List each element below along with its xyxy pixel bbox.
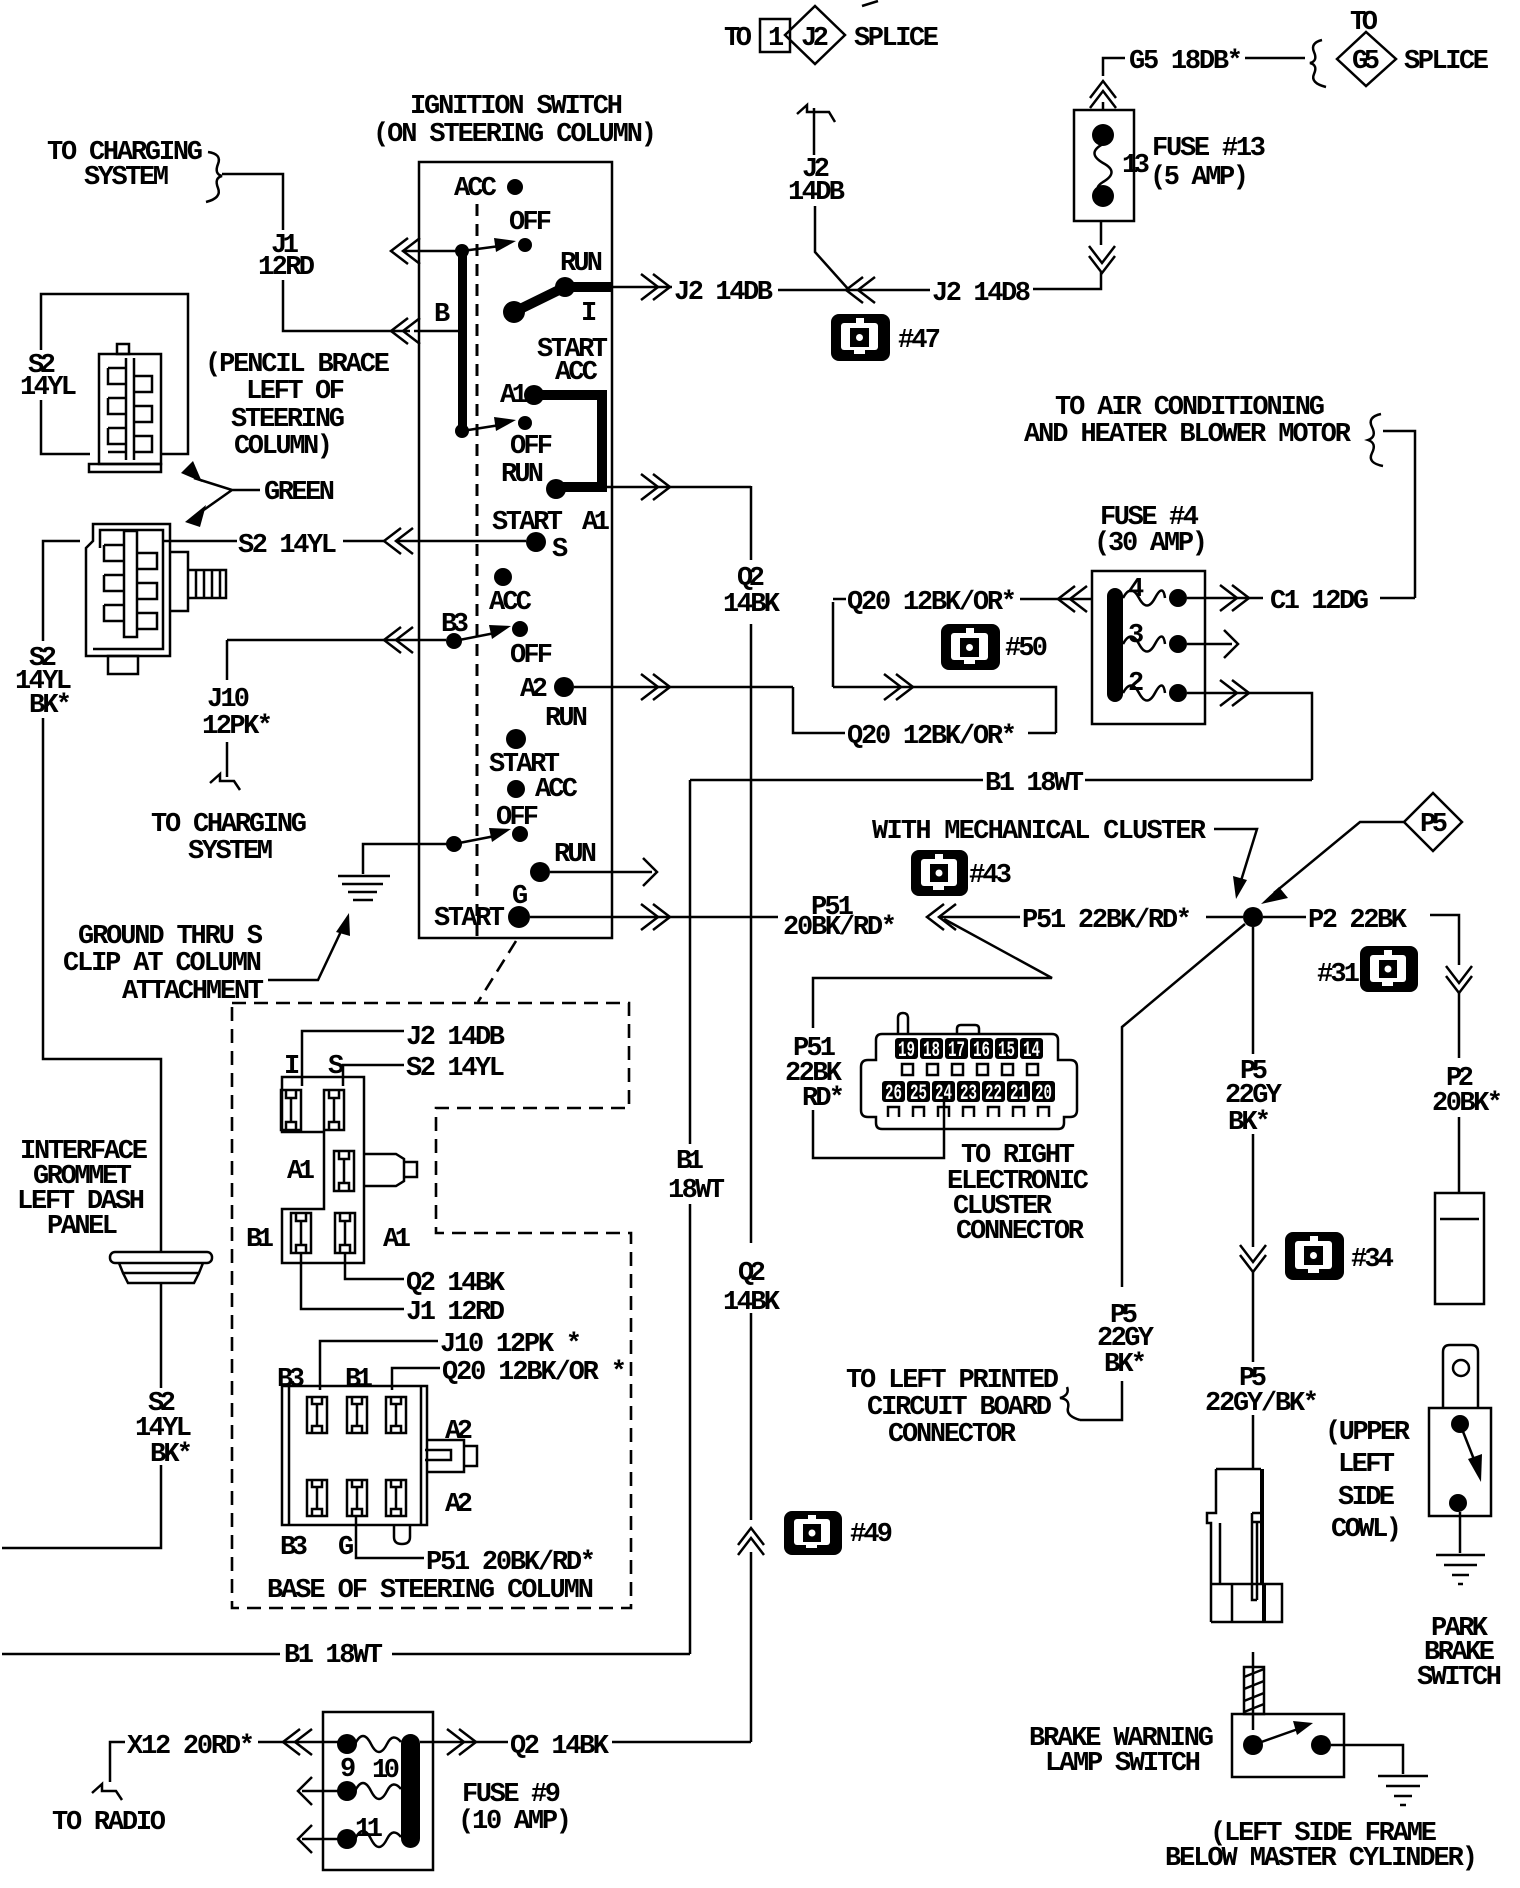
START dot + label (bank4) bbox=[506, 729, 526, 749]
svg-text:2: 2 bbox=[1128, 669, 1144, 699]
pin 11 bbox=[337, 1829, 357, 1849]
pin mid bbox=[337, 1781, 357, 1801]
svg-text:TO: TO bbox=[724, 24, 752, 54]
connector C1 body (in S2 box) bbox=[89, 344, 161, 472]
svg-text:GREEN: GREEN bbox=[264, 478, 335, 508]
svg-text:17: 17 bbox=[948, 1038, 965, 1063]
ground symbol bbox=[338, 876, 390, 900]
interface grommet bbox=[110, 1252, 212, 1283]
wire S2 14YL from connector to ignition S bbox=[164, 540, 384, 543]
svg-text:P51 22BK/RD*: P51 22BK/RD* bbox=[1022, 906, 1192, 936]
pointer to ground bbox=[268, 925, 344, 980]
wire P51 22BK/RD* bbox=[940, 916, 1020, 919]
ground (brake warning) bbox=[1378, 1776, 1428, 1805]
svg-text:TO RADIO: TO RADIO bbox=[52, 1808, 166, 1838]
contact bar B bbox=[458, 246, 467, 436]
svg-text:P5: P5 bbox=[1420, 810, 1448, 840]
wire Q2 vertical bbox=[750, 486, 753, 1742]
pin S bbox=[324, 1090, 344, 1130]
ignition switch box bbox=[419, 162, 612, 938]
connector chevrons (down) bbox=[1089, 246, 1115, 273]
wire RUN out to Q2 bbox=[605, 486, 751, 489]
svg-text:WITH MECHANICAL CLUSTER: WITH MECHANICAL CLUSTER bbox=[872, 817, 1207, 847]
wire to ground bbox=[1331, 1745, 1403, 1774]
bottom hole row bbox=[888, 1107, 1049, 1117]
bottom key tab bbox=[394, 1525, 410, 1544]
SEC7: base of steering column dashed box bbox=[232, 1003, 631, 1608]
svg-text:TO CHARGING: TO CHARGING bbox=[151, 810, 307, 840]
svg-text:B1 18WT: B1 18WT bbox=[985, 769, 1084, 799]
svg-text:RUN: RUN bbox=[554, 840, 597, 870]
dashed column line bbox=[476, 204, 479, 936]
svg-text:11: 11 bbox=[355, 1815, 383, 1845]
svg-text:SYSTEM: SYSTEM bbox=[188, 837, 273, 867]
svg-text:CLIP AT COLUMN: CLIP AT COLUMN bbox=[63, 949, 262, 979]
pin B1 bbox=[291, 1213, 311, 1253]
svg-text:PANEL: PANEL bbox=[47, 1212, 118, 1242]
fuse 4 box bbox=[1092, 571, 1205, 724]
svg-text:ACC: ACC bbox=[535, 775, 578, 805]
svg-text:#34: #34 bbox=[1351, 1245, 1394, 1275]
squiggle below splice bbox=[797, 105, 835, 122]
svg-text:26: 26 bbox=[885, 1081, 902, 1106]
pin 10 wire out bbox=[420, 1741, 508, 1744]
svg-text:STEERING: STEERING bbox=[231, 405, 345, 435]
connector icon #49 bbox=[784, 1511, 842, 1555]
svg-text:1: 1 bbox=[768, 24, 784, 54]
svg-text:#47: #47 bbox=[898, 326, 941, 356]
ground wire from pivot bbox=[363, 844, 447, 874]
OFF label + dot (bank2) bbox=[518, 416, 532, 430]
label J1 12RD bbox=[301, 1253, 404, 1309]
fuse 13 contacts bbox=[1092, 124, 1114, 146]
svg-text:B1 18WT: B1 18WT bbox=[284, 1641, 383, 1671]
wiper arrow bank2 bbox=[462, 425, 500, 431]
svg-text:LEFT: LEFT bbox=[1338, 1450, 1395, 1480]
svg-text:14: 14 bbox=[1023, 1038, 1040, 1063]
OFF dot + arrow (bank3) bbox=[512, 621, 528, 637]
chevrons down on P2 bbox=[1446, 966, 1472, 993]
svg-text:GROUND THRU S: GROUND THRU S bbox=[78, 922, 263, 952]
svg-text:B3: B3 bbox=[280, 1533, 308, 1563]
svg-text:B1: B1 bbox=[676, 1147, 704, 1177]
SEC2: ignition switch bbox=[63, 92, 793, 1007]
svg-text:Q20 12BK/OR*: Q20 12BK/OR* bbox=[847, 588, 1017, 618]
svg-text:RUN: RUN bbox=[501, 460, 544, 490]
svg-text:OFF: OFF bbox=[510, 432, 553, 462]
svg-text:24: 24 bbox=[935, 1081, 952, 1106]
svg-text:J2 14D8: J2 14D8 bbox=[932, 279, 1031, 309]
fuse 4 bus bar bbox=[1107, 588, 1123, 702]
wire below grommet bbox=[160, 1283, 163, 1388]
connector symbol << on B wire bbox=[391, 318, 420, 344]
wire to connector << bbox=[778, 289, 930, 292]
svg-text:RD*: RD* bbox=[802, 1084, 845, 1114]
latch tab bbox=[898, 1013, 908, 1034]
svg-text:BK*: BK* bbox=[1104, 1350, 1147, 1380]
diagonal from P5 to junction bbox=[1274, 822, 1404, 893]
squiggle bbox=[92, 1784, 122, 1800]
svg-text:S: S bbox=[552, 535, 568, 565]
ground (park brake) bbox=[1436, 1555, 1485, 1584]
svg-text:20: 20 bbox=[1035, 1081, 1052, 1106]
wire Q20 lower run bbox=[833, 687, 1056, 733]
pivot dot bank4 + arrow bbox=[446, 836, 462, 852]
svg-text:(UPPER: (UPPER bbox=[1325, 1418, 1411, 1448]
wire P2 to component bbox=[1458, 1117, 1461, 1193]
lower pin row 26..20 bbox=[882, 1081, 1055, 1106]
key tab right bbox=[425, 1440, 477, 1472]
svg-text:LEFT OF: LEFT OF bbox=[246, 377, 345, 407]
label P51 20BK/RD* bbox=[356, 1516, 424, 1558]
svg-text:J10: J10 bbox=[207, 685, 250, 715]
brace } bbox=[206, 152, 222, 202]
diagonal from junction to P5 left branch bbox=[1122, 924, 1245, 1287]
svg-text:A1: A1 bbox=[287, 1157, 315, 1187]
svg-text:TO AIR CONDITIONING: TO AIR CONDITIONING bbox=[1055, 393, 1325, 423]
svg-text:OFF: OFF bbox=[510, 641, 553, 671]
svg-text:BASE OF STEERING COLUMN: BASE OF STEERING COLUMN bbox=[267, 1576, 594, 1606]
wire A2 jog bbox=[793, 687, 845, 733]
SEC1: top-left charging system + S2 connectors bbox=[2, 138, 526, 1548]
wire to curly bbox=[1080, 1381, 1122, 1420]
wire B1 vertical bbox=[689, 780, 692, 1654]
svg-text:18WT: 18WT bbox=[668, 1176, 725, 1206]
wire J2 14D8 to fuse 13 bbox=[1033, 221, 1101, 289]
wire to G5 splice bbox=[1245, 57, 1305, 60]
svg-text:ACC: ACC bbox=[489, 588, 532, 618]
svg-text:BELOW MASTER CYLINDER): BELOW MASTER CYLINDER) bbox=[1165, 1844, 1478, 1874]
connector icon #47 bbox=[831, 314, 890, 361]
svg-text:#43: #43 bbox=[969, 861, 1012, 891]
connector icon #43 bbox=[911, 850, 968, 896]
fuse 13 box bbox=[1074, 110, 1134, 221]
svg-text:Q2 14BK: Q2 14BK bbox=[510, 1732, 610, 1762]
svg-text:CONNECTOR: CONNECTOR bbox=[956, 1217, 1085, 1247]
svg-text:20BK/RD*: 20BK/RD* bbox=[783, 913, 897, 943]
svg-text:S2 14YL: S2 14YL bbox=[406, 1054, 505, 1084]
connector << after label bbox=[927, 904, 956, 930]
junction dot bbox=[1243, 907, 1263, 927]
svg-text:#49: #49 bbox=[850, 1520, 893, 1550]
S contact dot bbox=[526, 532, 546, 552]
svg-text:12RD: 12RD bbox=[258, 253, 315, 283]
svg-text:(ON STEERING COLUMN): (ON STEERING COLUMN) bbox=[373, 120, 657, 150]
wire X12 to fuse 9 bbox=[258, 1741, 338, 1744]
wire J2 down + diagonal to connector bbox=[815, 206, 849, 290]
brake warning lamp switch box bbox=[1232, 1714, 1344, 1777]
RUN wire out with single arrow bbox=[550, 871, 652, 874]
svg-text:14BK: 14BK bbox=[723, 590, 781, 620]
svg-text:CIRCUIT BOARD: CIRCUIT BOARD bbox=[867, 1393, 1052, 1423]
svg-text:FUSE #9: FUSE #9 bbox=[462, 1780, 561, 1810]
wire to bottom left edge bbox=[2, 1465, 161, 1548]
pin A1 mid bbox=[334, 1151, 354, 1191]
wire J2 down bbox=[813, 108, 816, 155]
pivot dot top bbox=[455, 244, 469, 258]
svg-text:BK*: BK* bbox=[150, 1440, 193, 1470]
wire B1 18WT horizontal bbox=[690, 779, 1312, 782]
svg-text:SIDE: SIDE bbox=[1338, 1483, 1395, 1513]
connector chevrons up on Q2 bbox=[738, 1528, 764, 1555]
svg-text:14DB: 14DB bbox=[788, 178, 845, 208]
svg-text:ACC: ACC bbox=[555, 358, 598, 388]
wire to fuse 4 pin 4 bbox=[1380, 431, 1415, 598]
S2 box (top left) bbox=[41, 294, 188, 454]
wire J10 down bbox=[226, 640, 229, 680]
svg-text:RUN: RUN bbox=[560, 249, 603, 279]
svg-text:SYSTEM: SYSTEM bbox=[84, 163, 169, 193]
svg-text:B1: B1 bbox=[246, 1225, 274, 1255]
svg-text:BK*: BK* bbox=[29, 691, 72, 721]
connector icon #31 bbox=[1360, 946, 1418, 992]
wire to ground bbox=[1459, 1512, 1462, 1553]
svg-text:A2: A2 bbox=[445, 1417, 473, 1447]
svg-text:(5 AMP): (5 AMP) bbox=[1150, 163, 1249, 193]
svg-text:FUSE #13: FUSE #13 bbox=[1152, 134, 1266, 164]
svg-text:22GY/BK*: 22GY/BK* bbox=[1205, 1389, 1319, 1419]
svg-text:(10 AMP): (10 AMP) bbox=[458, 1807, 572, 1837]
svg-text:(30 AMP): (30 AMP) bbox=[1094, 529, 1208, 559]
wire into ignition B terminal bbox=[414, 330, 458, 333]
wire stub to pivot bbox=[403, 250, 459, 253]
svg-text:CONNECTOR: CONNECTOR bbox=[888, 1420, 1017, 1450]
wire S2 left leg down bbox=[43, 541, 80, 641]
wire J1 12RD from charging system bbox=[222, 174, 283, 230]
svg-text:TO LEFT PRINTED: TO LEFT PRINTED bbox=[846, 1366, 1059, 1396]
svg-text:J2 14DB: J2 14DB bbox=[674, 278, 773, 308]
svg-text:10: 10 bbox=[372, 1756, 400, 1786]
connector << on S wire bbox=[384, 528, 413, 554]
connector icon #50 bbox=[941, 624, 1000, 670]
svg-text:P51 20BK/RD*: P51 20BK/RD* bbox=[426, 1548, 596, 1578]
svg-text:18: 18 bbox=[923, 1038, 940, 1063]
fuse 13 element bbox=[1095, 144, 1112, 191]
svg-text:Q2: Q2 bbox=[738, 1259, 766, 1289]
pointer line to junction bbox=[1214, 829, 1257, 884]
upper pin row 19..14 bbox=[895, 1038, 1043, 1063]
svg-text:21: 21 bbox=[1010, 1081, 1027, 1106]
B3 wire bbox=[227, 639, 446, 642]
svg-text:14YL: 14YL bbox=[20, 373, 77, 403]
svg-text:P2 22BK: P2 22BK bbox=[1308, 906, 1408, 936]
curly bbox=[1060, 1387, 1080, 1420]
svg-text:B1: B1 bbox=[345, 1365, 373, 1395]
dashed link to base connector box bbox=[478, 941, 516, 1002]
svg-text:OFF: OFF bbox=[509, 208, 552, 238]
svg-text:(PENCIL BRACE: (PENCIL BRACE bbox=[205, 350, 390, 380]
connector shell bbox=[861, 1034, 1077, 1129]
svg-text:SWITCH: SWITCH bbox=[1417, 1663, 1502, 1693]
brake warning lamp switch plunger bbox=[1252, 1652, 1255, 1730]
fuse 9 bus bar bbox=[401, 1734, 420, 1848]
svg-text:SPLICE: SPLICE bbox=[854, 24, 939, 54]
brace bbox=[1368, 414, 1383, 466]
ACC dot + label (bank4) bbox=[507, 780, 525, 798]
svg-text:Q20 12BK/OR*: Q20 12BK/OR* bbox=[847, 722, 1017, 752]
svg-text:A1: A1 bbox=[500, 381, 528, 411]
connector icon #34 bbox=[1285, 1232, 1344, 1280]
connector C2 (green) body bbox=[86, 524, 226, 674]
svg-text:J1 12RD: J1 12RD bbox=[406, 1298, 505, 1328]
svg-text:25: 25 bbox=[910, 1081, 927, 1106]
brace bbox=[1310, 40, 1326, 87]
wire B1 18WT bottom bbox=[2, 1653, 690, 1656]
connector << on B3 wire bbox=[384, 627, 413, 653]
ACC dot + label (bank3) bbox=[494, 568, 512, 586]
svg-text:J2: J2 bbox=[801, 24, 829, 54]
pin A1 low bbox=[335, 1213, 355, 1253]
wire S2 vertical to grommet bbox=[43, 718, 161, 1252]
svg-text:G5: G5 bbox=[1352, 47, 1380, 77]
SEC5: P51 / P5 / P2 nets right side bbox=[783, 793, 1503, 1693]
svg-text:19: 19 bbox=[898, 1038, 915, 1063]
dashed boundary bbox=[232, 1003, 631, 1608]
svg-text:A2: A2 bbox=[520, 675, 548, 705]
tiny curl top edge bbox=[862, 1, 878, 6]
svg-text:I: I bbox=[581, 299, 597, 329]
wiper arrow bank1 bbox=[462, 246, 500, 251]
START wire out bbox=[530, 916, 778, 919]
svg-text:12PK*: 12PK* bbox=[202, 712, 273, 742]
pin I bbox=[281, 1090, 301, 1130]
svg-text:COLUMN): COLUMN) bbox=[234, 432, 333, 462]
svg-text:S2 14YL: S2 14YL bbox=[238, 531, 337, 561]
svg-text:22: 22 bbox=[985, 1081, 1002, 1106]
svg-text:G: G bbox=[338, 1533, 354, 1563]
wire to pin 24 bbox=[813, 1100, 944, 1158]
chevrons down on P5 bbox=[1240, 1245, 1266, 1272]
svg-text:ACC: ACC bbox=[454, 174, 497, 204]
SEC3: top area J2 splice, G5, fuse 13 bbox=[612, 1, 1489, 361]
wire P5 down from junction bbox=[1252, 927, 1255, 1469]
svg-text:J10 12PK *: J10 12PK * bbox=[440, 1330, 582, 1360]
G5 splice diamond bbox=[1337, 32, 1396, 86]
svg-text:C1 12DG: C1 12DG bbox=[1270, 587, 1369, 617]
component (switch pod) bbox=[1435, 1193, 1484, 1304]
svg-text:Q2 14BK: Q2 14BK bbox=[406, 1269, 506, 1299]
svg-text:Q20 12BK/OR *: Q20 12BK/OR * bbox=[442, 1358, 627, 1388]
svg-text:COWL): COWL) bbox=[1331, 1515, 1402, 1545]
svg-text:22GY: 22GY bbox=[1225, 1081, 1283, 1111]
connector key tab bbox=[364, 1154, 417, 1186]
svg-text:IGNITION SWITCH: IGNITION SWITCH bbox=[410, 92, 623, 122]
svg-text:A2: A2 bbox=[445, 1490, 473, 1520]
svg-text:13: 13 bbox=[1122, 151, 1150, 181]
svg-text:SPLICE: SPLICE bbox=[1404, 47, 1489, 77]
svg-text:J2 14DB: J2 14DB bbox=[406, 1023, 505, 1053]
svg-text:RUN: RUN bbox=[545, 704, 588, 734]
svg-text:15: 15 bbox=[998, 1038, 1015, 1063]
wire above fuse 13 bbox=[1103, 58, 1125, 110]
svg-text:14BK: 14BK bbox=[723, 1288, 781, 1318]
svg-text:#31: #31 bbox=[1317, 960, 1360, 990]
pins row2 bbox=[307, 1480, 406, 1516]
wire J10 lower + squiggle bbox=[226, 742, 229, 777]
wire Q20 upper run bbox=[833, 599, 846, 687]
svg-text:AND HEATER BLOWER MOTOR: AND HEATER BLOWER MOTOR bbox=[1024, 420, 1352, 450]
svg-text:X12 20RD*: X12 20RD* bbox=[127, 1732, 255, 1762]
svg-text:23: 23 bbox=[960, 1081, 977, 1106]
park brake switch tab bbox=[1443, 1345, 1478, 1408]
svg-text:START: START bbox=[492, 508, 563, 538]
svg-text:LAMP SWITCH: LAMP SWITCH bbox=[1045, 1749, 1201, 1779]
park brake switch body bbox=[1429, 1408, 1491, 1516]
svg-text:TO: TO bbox=[1350, 8, 1378, 38]
svg-text:#50: #50 bbox=[1005, 634, 1048, 664]
wire P2 22BK bbox=[1263, 916, 1306, 919]
svg-text:START: START bbox=[434, 904, 505, 934]
column connector upper outline bbox=[282, 1077, 364, 1263]
middle hole row bbox=[902, 1064, 1038, 1075]
P51 22BK RD* branch: diagonal from connector bbox=[813, 919, 1052, 1028]
svg-text:A1: A1 bbox=[582, 508, 610, 538]
wire J1 12RD lower bbox=[283, 280, 410, 331]
pin 9 bbox=[337, 1734, 357, 1754]
svg-text:20BK*: 20BK* bbox=[1432, 1089, 1503, 1119]
fuse 9 box bbox=[323, 1712, 433, 1870]
svg-text:B: B bbox=[434, 300, 450, 330]
SEC8: bottom fuse 9, B1 line, brake warning switch bbox=[2, 1641, 1478, 1874]
svg-text:9: 9 bbox=[340, 1755, 356, 1785]
svg-text:BK*: BK* bbox=[1228, 1108, 1271, 1138]
pins row1 bbox=[307, 1397, 406, 1433]
SEC6: 26-pin cluster connector bbox=[861, 1013, 1089, 1247]
wire pin4 out bbox=[1215, 597, 1263, 600]
SEC4: fuse 4, Q20, B1/Q2 verticals bbox=[668, 393, 1415, 1742]
connector stub << at ACC row bbox=[391, 238, 420, 264]
svg-text:16: 16 bbox=[973, 1038, 990, 1063]
svg-text:A1: A1 bbox=[383, 1225, 411, 1255]
lower connector box bbox=[282, 1386, 427, 1525]
bold path A1-RUN bbox=[534, 395, 602, 487]
pivot dot bottom bbox=[455, 424, 469, 438]
label Q2 14BK bbox=[345, 1253, 404, 1279]
wire J2 14DB from ignition bbox=[612, 287, 672, 290]
connector chevrons (up) bbox=[1090, 81, 1116, 108]
P5 connector shell bbox=[1207, 1469, 1282, 1622]
svg-text:G5 18DB*: G5 18DB* bbox=[1129, 47, 1243, 77]
P5 splice diamond bbox=[1404, 793, 1462, 851]
label X12 20RD* bbox=[110, 1742, 125, 1782]
